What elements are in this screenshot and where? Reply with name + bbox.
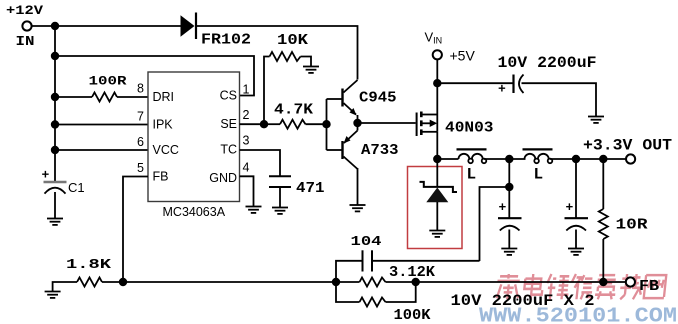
- svg-text:C1: C1: [68, 180, 85, 195]
- svg-text:471: 471: [296, 180, 325, 197]
- svg-text:FR102: FR102: [201, 31, 251, 48]
- terminal VIN: [433, 50, 442, 59]
- wire rail to L1: [437, 158, 458, 160]
- node dot 10R top: [599, 155, 607, 163]
- svg-text:3: 3: [243, 134, 250, 148]
- svg-text:C945: C945: [359, 90, 397, 107]
- svg-text:10V 2200uF: 10V 2200uF: [498, 54, 597, 72]
- highlight red box: [408, 167, 463, 249]
- op-amp U1 MC34063A box: [148, 72, 240, 202]
- node dot bus y97: [51, 93, 59, 101]
- capacitor 10V 2200uF input: [437, 75, 596, 117]
- capacitor 104: [336, 250, 480, 282]
- wire GND pin4: [240, 176, 254, 206]
- svg-text:104: 104: [351, 234, 382, 250]
- svg-text:10R: 10R: [616, 217, 648, 234]
- wire VCC pin6: [55, 149, 148, 151]
- svg-text:+: +: [42, 168, 50, 183]
- svg-text:1.8K: 1.8K: [66, 257, 112, 273]
- wire divider to FB terminal: [416, 281, 604, 283]
- wire base bus: [327, 99, 343, 150]
- svg-text:L: L: [467, 166, 477, 184]
- svg-text:GND: GND: [209, 171, 237, 185]
- capacitor output B: [565, 218, 589, 248]
- svg-text:100R: 100R: [89, 74, 127, 89]
- capacitor C1: [44, 182, 67, 219]
- resistor 10R vertical: [599, 159, 608, 282]
- svg-text:4: 4: [243, 160, 250, 174]
- ground schottky: [429, 231, 445, 237]
- transistor Q1 C945: [343, 80, 358, 123]
- svg-text:4.7K: 4.7K: [274, 102, 313, 119]
- capacitor 471: [269, 176, 291, 207]
- wire rail to out: [576, 158, 626, 160]
- watermark text line 1 (pink CJK): [496, 274, 667, 299]
- ground below 10K: [303, 67, 319, 73]
- wire top rail from IN to diode: [32, 25, 182, 27]
- wire FB to terminal: [603, 281, 626, 283]
- wire IPK pin7: [55, 124, 148, 126]
- svg-text:+: +: [498, 82, 506, 97]
- wire top rail from diode to transistor collector drop: [195, 26, 358, 80]
- node dot L1/L2: [505, 155, 513, 163]
- svg-text:+3.3V OUT: +3.3V OUT: [583, 137, 672, 155]
- node dot SE: [260, 120, 268, 128]
- wire source down: [436, 132, 438, 159]
- ground cap B: [568, 249, 584, 255]
- svg-text:IPK: IPK: [153, 118, 174, 132]
- wire rail to L2: [509, 158, 525, 160]
- wire feedback tap: [508, 159, 510, 187]
- ground input cap: [588, 117, 604, 123]
- svg-text:+: +: [499, 200, 507, 215]
- node dot bus y56: [51, 52, 59, 60]
- resistor 100K parallel: [336, 282, 416, 307]
- diode FR102: [181, 13, 197, 40]
- terminal +3.3V OUT: [626, 154, 635, 163]
- svg-text:CS: CS: [220, 89, 237, 103]
- ground cap A: [501, 249, 517, 255]
- node dot FB: [599, 278, 607, 286]
- resistor 3.12K: [336, 278, 416, 287]
- node dot divider right: [412, 278, 420, 286]
- svg-text:40N03: 40N03: [445, 120, 494, 137]
- transistor Q3 40N03: [417, 112, 438, 137]
- svg-text:2: 2: [243, 108, 250, 122]
- ground below A733: [350, 205, 366, 211]
- node dot +5V: [433, 79, 441, 87]
- svg-text:100K: 100K: [394, 307, 431, 324]
- svg-text:SE: SE: [220, 117, 237, 131]
- resistor 10K with ground: [264, 52, 311, 124]
- node dot tap: [505, 183, 513, 191]
- capacitor output A: [498, 218, 522, 248]
- node dot bus y150: [51, 146, 59, 154]
- ground below C1: [47, 219, 63, 225]
- svg-text:L: L: [534, 166, 544, 184]
- svg-text:6: 6: [137, 135, 144, 149]
- wire L1 node down to cap: [508, 187, 510, 218]
- svg-text:FB: FB: [153, 170, 169, 184]
- transistor Q2 A733: [343, 123, 358, 205]
- wire drain up to +5V node: [436, 60, 438, 115]
- svg-text:FB: FB: [639, 278, 659, 295]
- svg-text:5: 5: [137, 161, 144, 175]
- svg-text:DRI: DRI: [153, 90, 175, 104]
- svg-text:1: 1: [243, 83, 250, 97]
- svg-text:IN: IN: [16, 34, 35, 50]
- node dot bus y124.5: [51, 120, 59, 128]
- svg-text:+12V: +12V: [6, 3, 43, 18]
- diode D2 schottky: [420, 159, 458, 231]
- svg-text:3.12K: 3.12K: [389, 264, 435, 281]
- svg-text:MC34063A: MC34063A: [163, 205, 226, 219]
- node dot FB pin5: [119, 278, 127, 286]
- svg-text:10V 2200uF X 2: 10V 2200uF X 2: [451, 292, 595, 310]
- inductor L1: [457, 149, 510, 163]
- node dot driver out: [353, 119, 361, 127]
- ground 1.8K: [45, 292, 61, 298]
- wire FB node to divider: [123, 281, 336, 283]
- wire TC pin3 to cap 471: [240, 150, 281, 176]
- svg-text:VCC: VCC: [153, 143, 179, 157]
- wire gate drive: [358, 122, 416, 124]
- ground below 471: [272, 208, 288, 214]
- inductor L2: [523, 149, 577, 163]
- svg-text:7: 7: [137, 109, 144, 123]
- terminal IN (+12V): [22, 21, 31, 30]
- svg-text:+5V: +5V: [450, 48, 476, 64]
- resistor 1.8K with ground: [53, 278, 123, 292]
- node dot cap B: [572, 155, 580, 163]
- node dot divider left: [332, 278, 340, 286]
- wire SE pin2: [240, 123, 265, 125]
- resistor 4.7K: [264, 120, 327, 129]
- wire CS feed: bus to pin1: [55, 56, 254, 96]
- ground pin4: [246, 207, 262, 213]
- terminal FB: [626, 277, 635, 286]
- node dot source rail: [433, 155, 441, 163]
- svg-text:TC: TC: [220, 143, 237, 157]
- svg-text:A733: A733: [361, 142, 399, 159]
- node dot bus top: [51, 22, 59, 30]
- wire +12V bus vertical: [54, 26, 56, 182]
- wire tap jog to 104: [480, 187, 510, 261]
- node dot base bus: [322, 120, 330, 128]
- svg-text:8: 8: [137, 82, 144, 96]
- wire FB pin5 to divider: [123, 177, 148, 283]
- wire cap B down: [575, 159, 577, 218]
- svg-text:10K: 10K: [277, 32, 308, 49]
- resistor 100R: [55, 93, 148, 102]
- svg-text:+: +: [566, 200, 574, 215]
